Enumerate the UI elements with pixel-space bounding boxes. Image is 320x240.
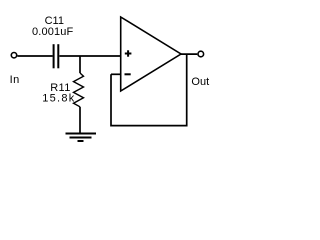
wire: capacitor C11 to op-amp + input (junction at x=80): [59, 55, 120, 57]
op-amp - input marker: [125, 73, 131, 75]
ground: [66, 134, 97, 142]
output terminal (node Out): [198, 51, 204, 57]
wire: resistor R11 to ground: [79, 107, 81, 134]
wire: feedback to op-amp - input: [111, 73, 121, 75]
svg-text:In: In: [10, 74, 20, 86]
wire: feedback loop (output to - input): [111, 54, 187, 126]
op-amp U1 triangle: [121, 17, 181, 91]
svg-text:Out: Out: [191, 76, 209, 88]
svg-text:15.8k: 15.8k: [42, 93, 75, 105]
input terminal (node In): [11, 53, 16, 58]
svg-text:0.001uF: 0.001uF: [32, 26, 74, 38]
svg-text:C11: C11: [45, 15, 64, 27]
op-amp + input marker: [125, 50, 132, 56]
capacitor C11 left plate: [53, 44, 55, 68]
capacitor C11 right plate: [57, 44, 59, 68]
wire: op-amp output to terminal: [180, 53, 197, 55]
wire: input terminal to capacitor C11: [17, 55, 52, 57]
resistor R11 (zigzag): [74, 73, 84, 107]
wire: junction down to resistor R11: [79, 56, 81, 73]
